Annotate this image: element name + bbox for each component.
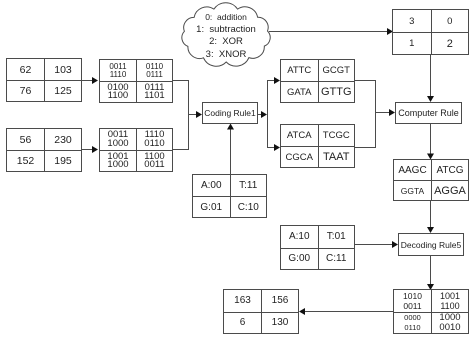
table A: pixel pairs 62/103/76/125 bbox=[6, 58, 82, 102]
wire DecodingRule5 down to result binary table bbox=[430, 256, 432, 285]
binary table 1 bbox=[99, 59, 173, 103]
binary table 2 bbox=[99, 128, 173, 172]
wire tableD up to CodingRule1 bbox=[230, 129, 232, 174]
table C: rule numbers 3/0/1/2 bbox=[392, 9, 469, 55]
box Decoding Rule5 bbox=[398, 233, 464, 256]
wire branch to DNA tables bbox=[267, 81, 269, 148]
cloud outline bbox=[182, 3, 270, 66]
wire AAGC table down to DecodingRule5 bbox=[430, 201, 432, 228]
wire tableE to DecodingRule5 bbox=[355, 244, 392, 246]
box Coding Rule1 bbox=[202, 102, 258, 124]
table D: mapping A:00 T:11 G:01 C:10 bbox=[192, 174, 267, 218]
wire DNA tables merge to ComputerRule bbox=[355, 81, 376, 148]
DNA table 1: ATTC GCGT GATA GTTG bbox=[280, 59, 355, 103]
wire CodingRule1 to branch bbox=[258, 114, 262, 116]
DNA table 2: ATCA TCGC CGCA TAAT bbox=[280, 124, 355, 168]
wire table3012 down to ComputerRule bbox=[430, 55, 432, 97]
cloud text: operation legend bbox=[181, 11, 271, 60]
wire result binary table to tableF bbox=[304, 311, 393, 313]
table F: decoded values 163/156/6/130 bbox=[223, 289, 299, 334]
table B: pixel pairs 56/230/152/195 bbox=[6, 128, 82, 172]
wire ComputerRule down to AAGC table bbox=[430, 124, 432, 154]
table E: mapping A:10 T:01 G:00 C:11 bbox=[280, 225, 355, 270]
AAGC table: AAGC ATCG GGTA AGGA bbox=[393, 159, 469, 201]
wire tableA to bin1 bbox=[82, 80, 93, 82]
result binary table bbox=[393, 289, 469, 334]
wire bin1+bin2 merge to CodingRule1 bbox=[173, 81, 189, 150]
box Computer Rule bbox=[395, 102, 462, 124]
wire tableB to bin2 bbox=[82, 149, 93, 151]
wire cloud to table 3012 bbox=[269, 31, 387, 33]
